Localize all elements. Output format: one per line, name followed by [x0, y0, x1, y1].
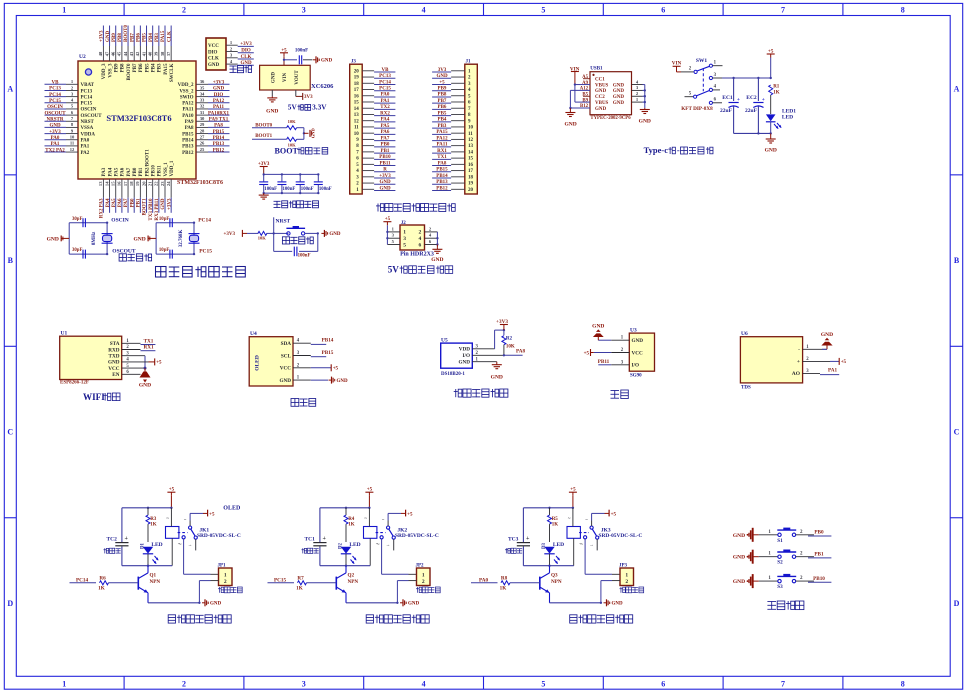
svg-text:EC1: EC1: [722, 95, 733, 101]
wire reset bottom loop: [273, 233, 275, 251]
svg-text:A: A: [7, 85, 13, 94]
svg-text:8: 8: [901, 680, 905, 689]
svg-text:+5: +5: [407, 512, 413, 517]
svg-text:CC1: CC1: [595, 78, 605, 83]
svg-text:PB14: PB14: [436, 174, 448, 179]
ground at regulator GND pin: [271, 90, 273, 96]
svg-text:OLED: OLED: [255, 355, 261, 371]
svg-text:VB: VB: [52, 81, 60, 86]
svg-text:GND: GND: [564, 122, 576, 128]
J2 right pins wires: [425, 231, 438, 233]
svg-text:PB13: PB13: [213, 142, 225, 147]
svg-text:100nF: 100nF: [319, 187, 332, 192]
svg-text:100nF: 100nF: [301, 187, 314, 192]
resistor 10K BOOT0: [287, 126, 297, 130]
label relay control output chinese 3: [570, 615, 577, 623]
svg-text:USB1: USB1: [590, 67, 603, 72]
svg-text:3.3V: 3.3V: [312, 103, 327, 112]
svg-text:RX2: RX2: [380, 111, 390, 116]
svg-text:-: -: [677, 145, 680, 155]
svg-text:4: 4: [419, 236, 422, 242]
svg-text:2: 2: [182, 680, 186, 689]
svg-text:36: 36: [200, 79, 205, 84]
svg-text:PB8: PB8: [118, 33, 123, 42]
svg-text:5: 5: [392, 239, 395, 244]
svg-text:GND: GND: [329, 232, 341, 237]
svg-text:GND: GND: [491, 374, 503, 380]
svg-text:+5: +5: [333, 367, 339, 372]
svg-text:3: 3: [302, 6, 306, 15]
capacitor 100nF filter 2: [281, 174, 283, 181]
svg-text:PA11: PA11: [213, 105, 225, 110]
U2 right pin 32 PA11 net PA11: [196, 108, 208, 110]
ground servo pin1: [598, 339, 611, 341]
svg-text:24: 24: [166, 181, 171, 186]
push button S1: [778, 533, 781, 536]
U6 pin2 to +5: [803, 360, 830, 362]
U2 bottom pin 23 VSS_1 net GND: [164, 179, 166, 198]
connector J2 HDR2X3: [400, 225, 425, 250]
U2 bottom pin 13 PA3 net RX2 PA3: [102, 179, 104, 198]
push button reset: [274, 232, 289, 234]
svg-text:10pF: 10pF: [159, 217, 169, 222]
switch SW1 link dashed: [702, 68, 704, 91]
svg-text:PC14: PC14: [198, 217, 211, 223]
svg-text:VCC: VCC: [280, 366, 291, 372]
U2 bottom pin 22 PB11 net RX3 PB11: [158, 179, 160, 198]
svg-text:PB4: PB4: [149, 33, 154, 42]
svg-text:PA11: PA11: [436, 143, 448, 148]
svg-text:I/O: I/O: [463, 353, 471, 359]
svg-text:7: 7: [71, 116, 74, 121]
crystal 32.768K circuit: [155, 223, 157, 254]
label reset circuit (chinese): [282, 237, 289, 244]
svg-text:10: 10: [468, 126, 474, 131]
svg-text:2: 2: [689, 67, 692, 72]
svg-text:PB14: PB14: [322, 338, 334, 344]
svg-text:3: 3: [403, 236, 406, 242]
svg-text:PB6: PB6: [137, 33, 142, 42]
svg-text:PC13: PC13: [81, 89, 93, 94]
svg-text:PB4: PB4: [438, 118, 447, 123]
svg-text:7: 7: [781, 6, 785, 15]
svg-text:39: 39: [154, 51, 159, 56]
svg-text:GND: GND: [613, 83, 625, 88]
svg-text:1: 1: [768, 530, 771, 535]
svg-text:GND: GND: [208, 63, 220, 68]
svg-text:5: 5: [71, 104, 74, 109]
label mcu minimum system (chinese): [156, 267, 167, 278]
svg-text:1: 1: [403, 230, 406, 236]
svg-text:OSCOUT: OSCOUT: [81, 114, 103, 119]
connector JP1: [219, 568, 233, 586]
svg-text:B: B: [8, 256, 14, 265]
svg-text:JP1: JP1: [218, 564, 227, 569]
ground U1: [140, 372, 151, 378]
svg-text:PA1: PA1: [381, 99, 390, 104]
U4 pin1 to ground: [311, 379, 328, 381]
svg-text:6: 6: [661, 6, 665, 15]
wire button S3 left: [759, 580, 778, 582]
svg-text:VCC: VCC: [108, 366, 119, 372]
svg-text:GND: GND: [139, 383, 151, 389]
svg-text:1: 1: [625, 572, 628, 578]
svg-text:48: 48: [98, 51, 103, 56]
svg-text:PA6: PA6: [121, 167, 126, 176]
power +5 relay 3 contact: [605, 512, 610, 514]
svg-text:U3: U3: [630, 328, 637, 334]
svg-text:PB14: PB14: [182, 139, 194, 144]
svg-text:1: 1: [62, 6, 66, 15]
U2 top pin 48 VDD_3 net +3V3: [102, 46, 104, 61]
svg-text:PB14: PB14: [213, 136, 225, 141]
svg-text:DIO: DIO: [241, 49, 251, 54]
svg-text:22: 22: [154, 181, 159, 186]
svg-text:PA15: PA15: [164, 63, 169, 75]
U2 bottom pin 20 PB2/BOOT1 net BOOT1: [146, 179, 148, 198]
svg-text:6: 6: [419, 242, 422, 248]
svg-text:10: 10: [70, 135, 75, 140]
svg-text:PC15: PC15: [81, 102, 93, 107]
svg-text:GND: GND: [595, 107, 607, 112]
svg-text:S1: S1: [777, 538, 783, 544]
U2 right pin 35 VSS_2 net GND: [196, 89, 208, 91]
svg-text:VDD_1: VDD_1: [170, 160, 175, 176]
svg-text:8MHz: 8MHz: [92, 231, 97, 245]
transistor Q3 NPN: [539, 577, 541, 590]
svg-text:PC15: PC15: [199, 248, 212, 254]
wire relay 2 left branch: [319, 508, 321, 542]
svg-text:Q2: Q2: [348, 573, 355, 579]
svg-text:BOOT: BOOT: [275, 146, 299, 155]
svg-text:+5: +5: [156, 361, 162, 366]
U2 left pin 10 PA0 net PA0: [66, 139, 78, 141]
svg-text:GND: GND: [49, 124, 61, 129]
svg-text:100nF: 100nF: [298, 254, 311, 259]
svg-text:1K: 1K: [500, 586, 507, 592]
svg-text:TX3 PB10: TX3 PB10: [149, 198, 154, 221]
svg-text:PB12: PB12: [182, 151, 194, 156]
wire filter cap bottom bus: [264, 192, 319, 194]
svg-text:VDD_3: VDD_3: [102, 63, 107, 79]
svg-text:PB11: PB11: [158, 165, 163, 177]
svg-text:VSS_3: VSS_3: [108, 63, 113, 78]
resistor base 1K relay 2: [298, 581, 307, 585]
push button S2: [778, 555, 781, 558]
relay JK3 coil: [567, 527, 580, 539]
svg-text:R: R: [383, 168, 387, 173]
svg-text:32.768K: 32.768K: [179, 229, 184, 247]
svg-text:BOOT0: BOOT0: [124, 25, 129, 42]
relay JK1 contacts: [189, 526, 192, 529]
svg-text:12: 12: [354, 119, 360, 124]
svg-text:VCC: VCC: [208, 44, 219, 49]
U1 pin3 wire TXD: [122, 355, 145, 357]
svg-text:2: 2: [71, 85, 74, 90]
U2 bottom pin 19 PB1 net PB1: [139, 179, 141, 198]
label tantalum cap chinese relay 2: [302, 548, 304, 553]
svg-text:GND: GND: [47, 237, 59, 243]
svg-text:27: 27: [200, 135, 205, 140]
capacitor 100nF filter 4: [317, 174, 319, 181]
sensor U6 TDS: [740, 337, 802, 383]
svg-text:20: 20: [141, 181, 146, 186]
svg-text:D: D: [954, 599, 960, 608]
U2 top pin 47 VSS_3 net GND: [109, 46, 111, 61]
svg-text:100nF: 100nF: [283, 187, 296, 192]
U2 bottom pin 18 PB0 net PB0: [133, 179, 135, 198]
connector download port: [206, 38, 226, 70]
U1 pin2 wire net RX1: [122, 349, 141, 351]
svg-text:PA1: PA1: [81, 145, 90, 150]
svg-text:23: 23: [160, 181, 165, 186]
svg-text:5V: 5V: [288, 103, 298, 112]
svg-text:PA5: PA5: [112, 198, 117, 207]
wire +5 rail Type-C: [722, 77, 771, 79]
svg-text:10K: 10K: [288, 119, 297, 124]
svg-text:+3V3: +3V3: [379, 174, 391, 179]
transistor Q1 NPN: [137, 577, 139, 590]
svg-text:21: 21: [147, 181, 152, 186]
svg-text:SCL: SCL: [281, 353, 292, 359]
svg-text:GND: GND: [379, 186, 391, 191]
svg-text:TC3: TC3: [508, 537, 519, 543]
svg-text:+: +: [323, 536, 327, 542]
ground J2: [436, 245, 438, 248]
svg-text:PB0: PB0: [814, 530, 824, 536]
U2 top pin 40 PB4 net PB4: [152, 46, 154, 61]
svg-text:TDS: TDS: [741, 386, 751, 391]
svg-text:4: 4: [230, 59, 233, 64]
U2 top pin 43 PB7 net PB7: [133, 46, 135, 61]
svg-text:+: +: [762, 97, 765, 103]
svg-text:14: 14: [354, 107, 360, 112]
svg-text:13: 13: [354, 113, 360, 118]
svg-text:STM32F103C8T6: STM32F103C8T6: [106, 113, 171, 123]
svg-text:+5: +5: [209, 512, 215, 517]
svg-text:PC15: PC15: [49, 99, 61, 104]
svg-text:3V3: 3V3: [438, 68, 447, 73]
svg-text:VDDA: VDDA: [81, 132, 96, 137]
svg-text:12: 12: [70, 147, 75, 152]
svg-text:14: 14: [104, 181, 109, 186]
svg-text:I/O: I/O: [632, 363, 640, 369]
svg-text:42: 42: [135, 51, 140, 56]
svg-text:30: 30: [200, 116, 205, 121]
svg-text:5: 5: [541, 6, 545, 15]
servo U3 SG90: [629, 333, 654, 371]
svg-text:BOOT0: BOOT0: [127, 63, 132, 80]
U2 left pin 3 PC14 net PC14: [66, 96, 78, 98]
regulator VOUT to 3V3: [295, 90, 297, 96]
crystal 8MHz: [103, 235, 112, 241]
svg-text:GND: GND: [337, 379, 349, 384]
svg-text:43: 43: [129, 51, 134, 56]
U2 top pin 37 SWCLK net CLK: [170, 46, 172, 61]
svg-text:+5: +5: [841, 360, 847, 365]
svg-text:2: 2: [419, 230, 422, 236]
svg-text:TX1: TX1: [144, 339, 154, 345]
svg-text:BOOT1: BOOT1: [143, 198, 148, 215]
svg-text:GND: GND: [431, 257, 443, 263]
svg-text:1: 1: [224, 572, 227, 578]
svg-text:SW1: SW1: [696, 58, 708, 64]
svg-text:35: 35: [200, 85, 205, 90]
svg-text:JP3: JP3: [619, 564, 628, 569]
svg-text:3: 3: [392, 233, 395, 238]
svg-text:OSCIN: OSCIN: [47, 105, 63, 110]
ground relay 1: [202, 602, 205, 604]
svg-text:PA15: PA15: [436, 130, 448, 135]
svg-text:CLK: CLK: [208, 57, 219, 62]
svg-text:18: 18: [354, 82, 360, 87]
svg-text:STM32F103C8T6: STM32F103C8T6: [177, 180, 223, 186]
svg-text:GND: GND: [379, 180, 391, 185]
svg-text:PA0: PA0: [81, 139, 90, 144]
svg-text:18: 18: [129, 181, 134, 186]
svg-text:13: 13: [98, 181, 103, 186]
svg-text:C: C: [954, 428, 960, 437]
svg-text:~: ~: [585, 517, 588, 522]
svg-text:NPN: NPN: [551, 579, 562, 585]
svg-text:PC14: PC14: [379, 80, 391, 85]
svg-text:~: ~: [382, 517, 385, 522]
capacitor 30pF top: [82, 218, 84, 227]
svg-text:WIFI: WIFI: [83, 392, 105, 402]
svg-text:GND: GND: [266, 109, 278, 115]
svg-text:GND: GND: [108, 360, 120, 366]
U2 left pin 8 VSSA net GND: [66, 126, 78, 128]
U2 top pin 39 PB3 net PB3: [158, 46, 160, 61]
svg-text:JP2: JP2: [416, 564, 425, 569]
svg-text:RX1: RX1: [143, 345, 153, 351]
svg-text:2: 2: [230, 46, 233, 51]
svg-text:TX2: TX2: [380, 105, 390, 110]
svg-text:PA6: PA6: [118, 198, 123, 207]
svg-text:PA4: PA4: [108, 167, 113, 176]
svg-text:PA12: PA12: [182, 102, 194, 107]
U2 left pin 6 OSCOUT net OSCOUT: [66, 114, 78, 116]
transistor Q2 NPN: [335, 577, 337, 590]
svg-text:4: 4: [422, 6, 426, 15]
svg-text:PB5: PB5: [143, 33, 148, 42]
svg-text:~: ~: [568, 517, 571, 522]
svg-text:SDA: SDA: [281, 341, 292, 347]
U2 top pin 38 PA15 net PA15: [164, 46, 166, 61]
svg-text:GND: GND: [133, 237, 145, 243]
svg-text:VBUS: VBUS: [595, 101, 609, 106]
svg-text:PB0: PB0: [133, 167, 138, 176]
svg-text:2: 2: [429, 226, 432, 231]
svg-text:3: 3: [302, 680, 306, 689]
svg-text:PA7: PA7: [127, 167, 132, 176]
svg-text:1: 1: [392, 226, 395, 231]
svg-text:GND: GND: [213, 87, 225, 92]
svg-text:12: 12: [468, 138, 474, 143]
svg-text:PC15: PC15: [379, 87, 391, 92]
net label NRST: [273, 217, 275, 233]
capacitor 30pF bottom: [82, 250, 84, 259]
svg-text:NPN: NPN: [150, 579, 161, 585]
display U4 OLED: [249, 337, 293, 386]
svg-text:1K: 1K: [552, 522, 559, 527]
svg-text:DIO: DIO: [208, 50, 218, 55]
crystal 8MHz circuit: [68, 223, 70, 254]
wire emitter to ground relay 3: [550, 602, 601, 604]
svg-text:CC2: CC2: [595, 95, 605, 100]
regulator U? XC6206: [260, 65, 311, 90]
svg-text:OSCIN: OSCIN: [81, 108, 97, 113]
label relay control output chinese 2: [366, 615, 373, 623]
U2 bottom pin 17 PA7 net PA7: [127, 179, 129, 198]
U4 pin2 to +5: [311, 367, 331, 369]
U2 left pin 11 PA1 net PA1: [66, 145, 78, 147]
resistor R5 1K relay 3: [549, 508, 551, 515]
svg-text:CLK: CLK: [241, 55, 252, 60]
svg-text:1: 1: [636, 97, 639, 102]
U2 right pin 28 PB15 net PB15: [196, 133, 208, 135]
svg-text:PA6: PA6: [381, 130, 390, 135]
svg-text:VDD: VDD: [459, 347, 470, 353]
sensor U5 DS18B20-1: [441, 343, 473, 368]
svg-text:34: 34: [200, 91, 205, 96]
svg-text:+3V3: +3V3: [213, 81, 225, 86]
label temperature acquisition module (chinese): [455, 389, 457, 397]
connector J3 header 20pin: [350, 64, 363, 194]
svg-text:9: 9: [71, 128, 74, 133]
relay JK2 coil: [364, 527, 377, 539]
svg-text:PA11: PA11: [182, 108, 194, 113]
svg-text:VSSA: VSSA: [81, 126, 94, 131]
U2 top pin 45 PB8 net PB8: [121, 46, 123, 61]
capacitor 100nF filter 3: [299, 174, 301, 181]
diode LED1: [766, 114, 776, 121]
svg-text:R3: R3: [150, 517, 157, 522]
svg-text:5: 5: [403, 242, 406, 248]
U2 right pin 30 PA9 net PA9 TX1: [196, 120, 208, 122]
svg-text:GND: GND: [321, 59, 333, 64]
svg-text:S2: S2: [777, 560, 783, 566]
svg-text:SWIO: SWIO: [180, 95, 194, 100]
svg-text:~: ~: [166, 517, 169, 522]
svg-text:11: 11: [354, 126, 359, 131]
svg-text:14: 14: [468, 150, 474, 155]
svg-text:4: 4: [714, 85, 717, 90]
svg-text:VIN: VIN: [283, 73, 288, 83]
svg-text:VDD_2: VDD_2: [178, 83, 194, 88]
svg-text:GND: GND: [613, 95, 625, 100]
svg-text:PA8: PA8: [185, 126, 194, 131]
svg-text:PA10: PA10: [182, 114, 194, 119]
capacitor TC2 tantalum: [115, 542, 128, 544]
U2 right pin 29 PA8 net PA8: [196, 126, 208, 128]
svg-text:PB15: PB15: [182, 132, 194, 137]
power +5 relay 1 contact: [203, 512, 208, 514]
resistor R3 1K relay 1: [147, 508, 149, 515]
ground filter caps: [263, 193, 265, 195]
svg-text:Q3: Q3: [551, 573, 558, 579]
svg-text:2: 2: [800, 576, 803, 581]
connector JP2: [417, 568, 431, 586]
U2 left pin 7 NRST net NRSTR: [66, 120, 78, 122]
wire relay 2 contact to JP2: [381, 539, 383, 574]
wire emitter to ground relay 2: [346, 602, 397, 604]
svg-text:R1: R1: [773, 85, 780, 90]
svg-text:NRST: NRST: [276, 219, 291, 225]
U2 top pin 46 PB9 net PB9: [115, 46, 117, 61]
svg-text:17: 17: [468, 169, 474, 174]
svg-text:1: 1: [62, 680, 66, 689]
